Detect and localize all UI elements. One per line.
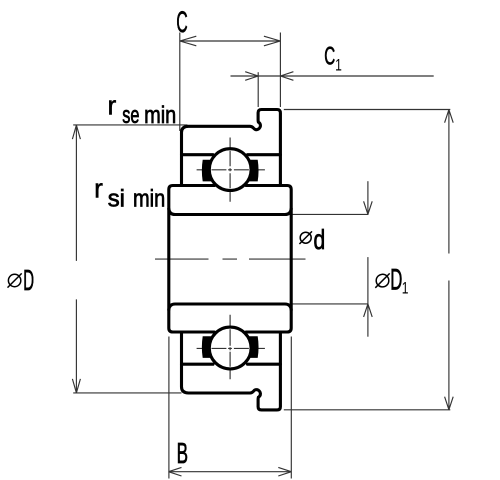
inner ring outline (169, 186, 291, 333)
outer ring lower half with flange (182, 332, 281, 410)
svg-text:B: B (177, 438, 188, 470)
svg-text:d: d (314, 224, 326, 255)
outer ring upper half with flange (169, 110, 291, 410)
svg-text:C: C (324, 43, 335, 71)
svg-text:C: C (176, 6, 187, 39)
svg-text:1: 1 (402, 280, 409, 298)
cage crescent upper-left (202, 160, 216, 182)
B dimension (168, 337, 170, 479)
diameter symbol for oD1 label (375, 273, 389, 287)
svg-text:se: se (122, 102, 139, 129)
svg-text:min: min (133, 186, 165, 213)
svg-text:D: D (390, 264, 402, 297)
svg-text:r: r (108, 91, 117, 121)
axis centerline (155, 258, 306, 260)
cage crescents (202, 160, 259, 358)
lower ball horizontal centerline (197, 347, 265, 349)
oD dimension (left) (73, 124, 187, 126)
diameter symbol for od label (299, 231, 312, 244)
flange OD dimension (right) (284, 109, 451, 111)
svg-text:r: r (94, 173, 103, 203)
svg-text:si: si (108, 186, 125, 213)
upper ball horizontal centerline (197, 169, 265, 171)
cage crescent upper-right (245, 160, 259, 182)
svg-text:min: min (144, 102, 176, 129)
ball upper (209, 149, 251, 191)
diameter symbol for oD label (8, 273, 22, 287)
od dimension (293, 213, 369, 215)
C dimension (179, 33, 181, 132)
C1 dimension (257, 72, 259, 107)
upper ball centerline inside ball (229, 151, 231, 189)
inner ring bore lines (169, 209, 291, 310)
outer ring bore line lower (182, 363, 281, 366)
lower ball vertical centerline (229, 315, 231, 380)
cage crescent lower-left (202, 336, 216, 358)
lower ball centerline inside ball (229, 329, 231, 367)
svg-text:D: D (23, 265, 34, 297)
cage crescent lower-right (245, 336, 259, 358)
ball lower (209, 327, 251, 369)
svg-text:1: 1 (335, 57, 342, 75)
outer ring bore line upper (182, 153, 281, 156)
oD1 dimension (293, 303, 369, 305)
upper ball vertical centerline (229, 138, 231, 202)
thin lines: centerlines, extension lines, dimension lines (72, 33, 453, 479)
